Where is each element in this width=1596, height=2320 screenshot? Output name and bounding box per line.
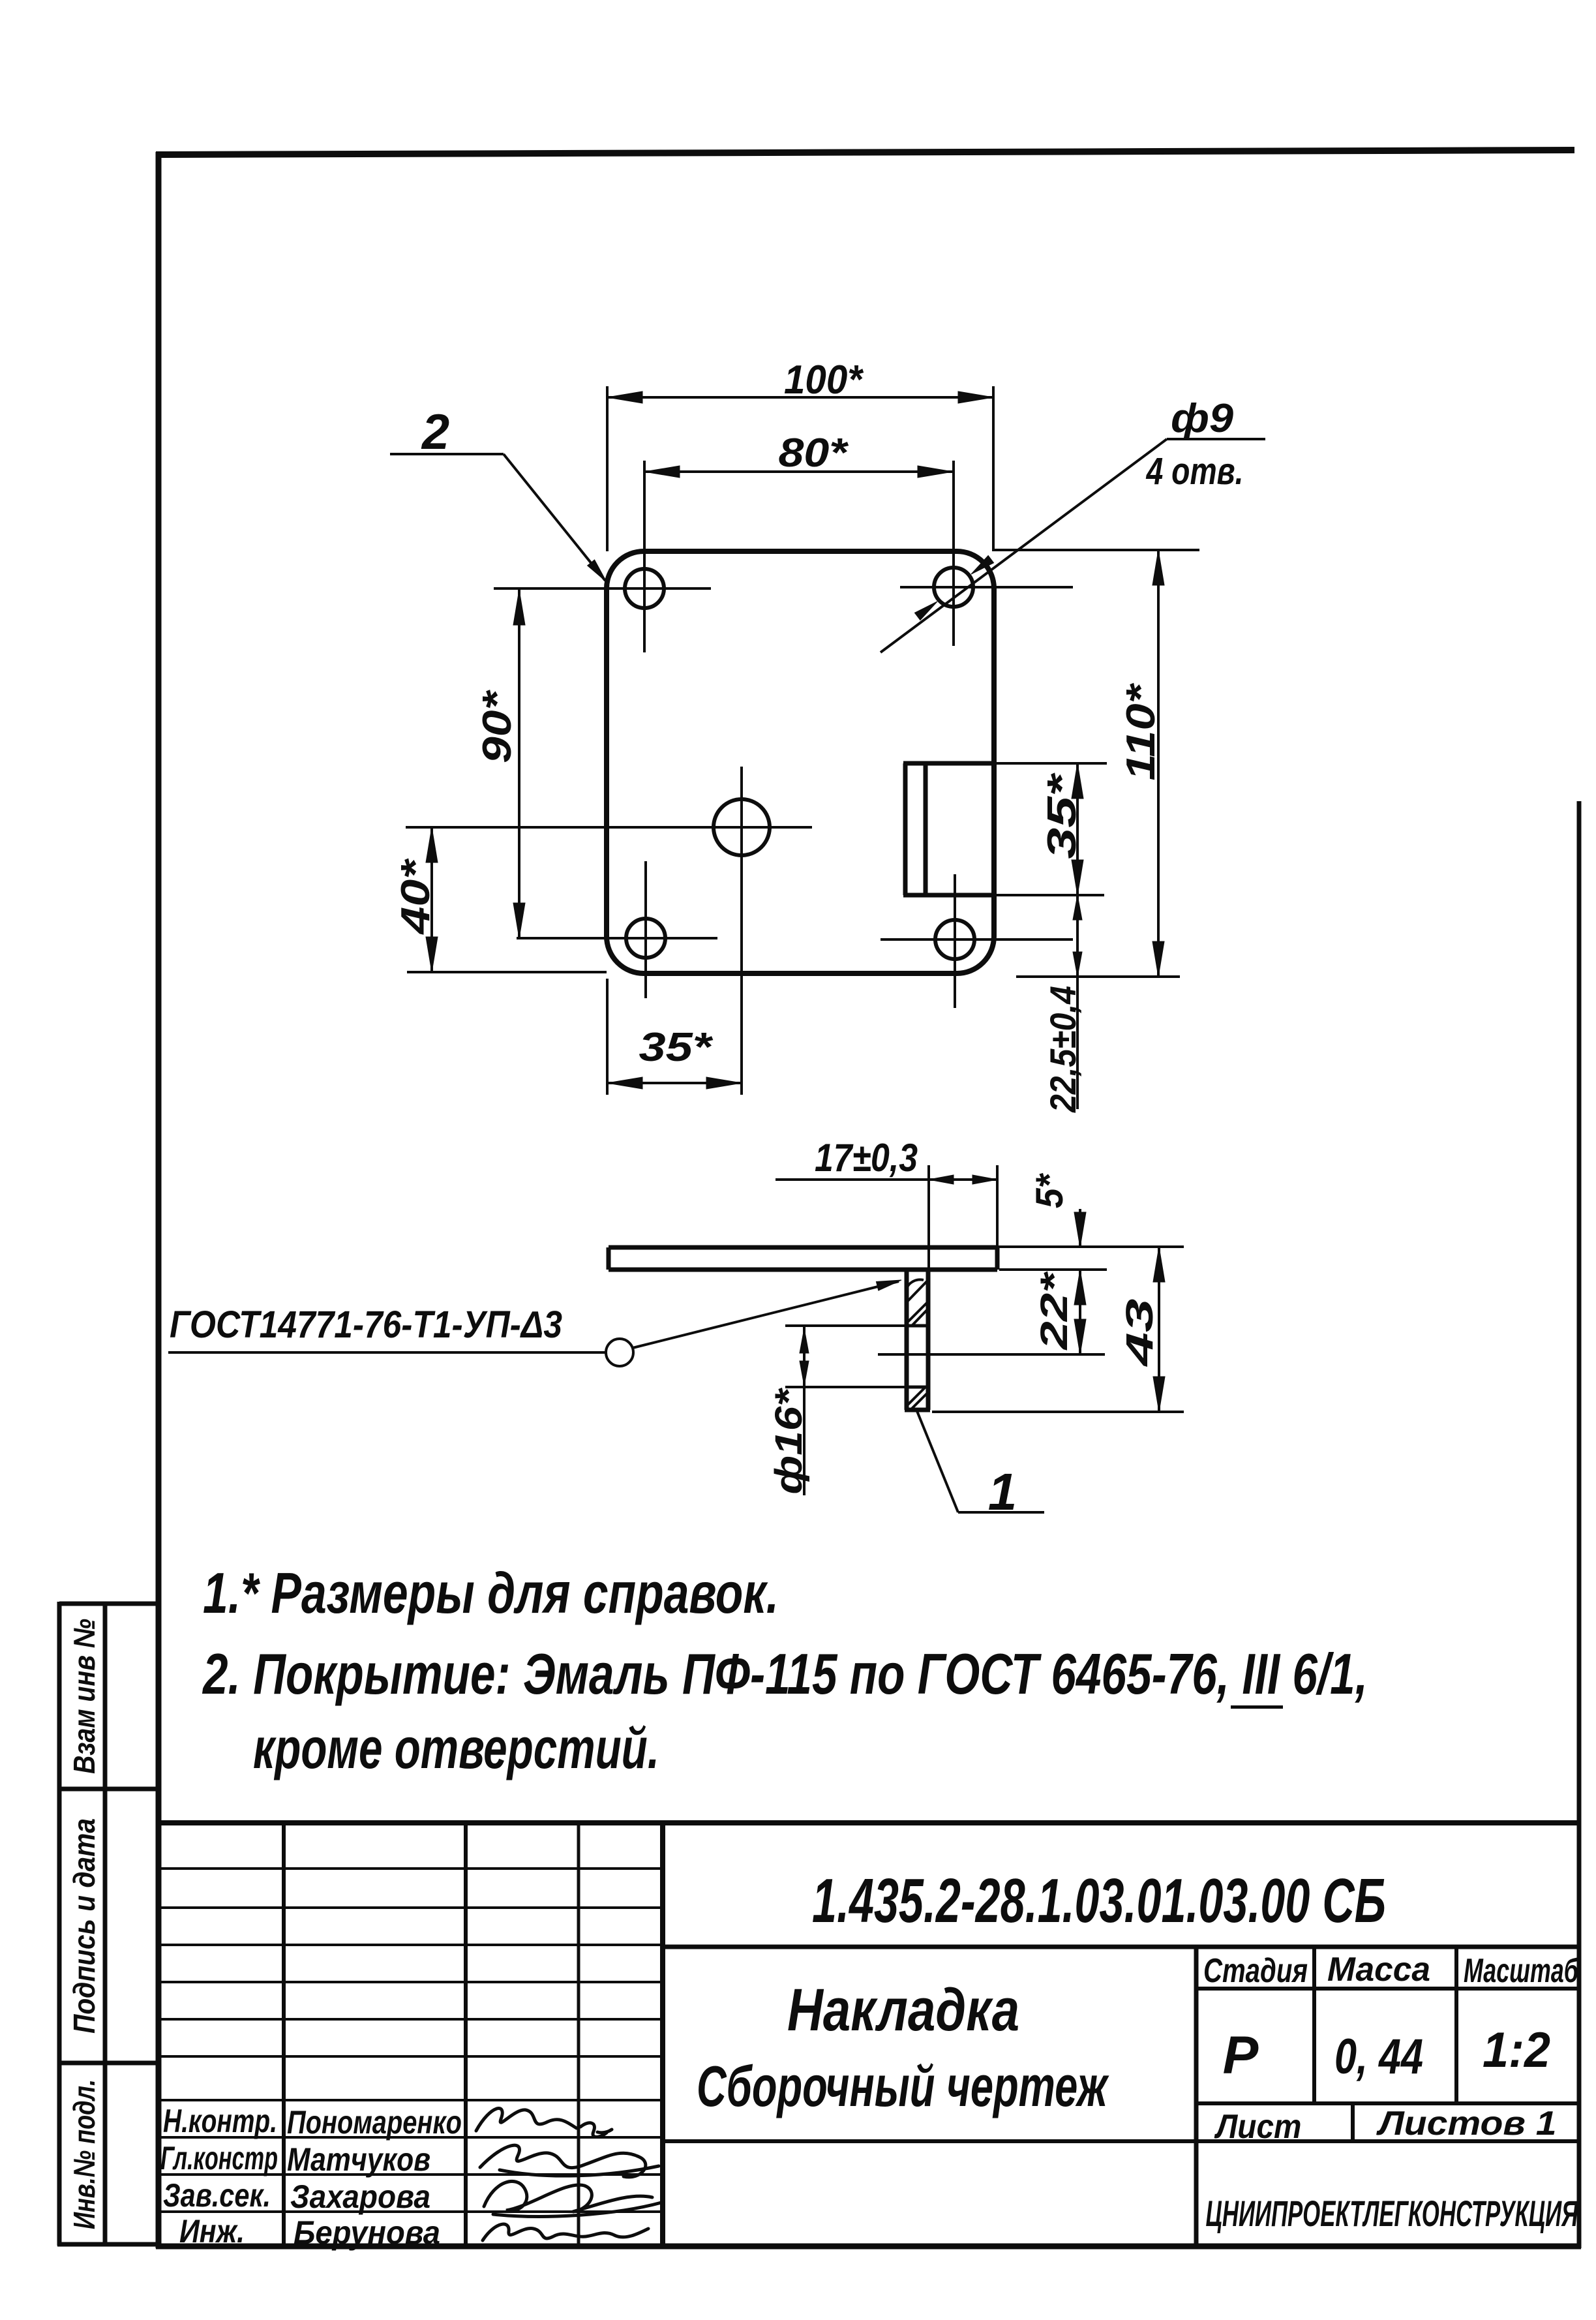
- signature glkonstr: [480, 2145, 659, 2177]
- note line 2 roman III underline: [1231, 1705, 1283, 1709]
- side view leg right edge: [926, 1270, 931, 1410]
- svg-text:0, 44: 0, 44: [1334, 2029, 1423, 2084]
- plate outline (plan view): [607, 551, 994, 973]
- sheet frame right border: [1577, 801, 1582, 2248]
- svg-text:Подпись и дата: Подпись и дата: [67, 1818, 101, 2034]
- stamp row line above list band: [1196, 2101, 1579, 2105]
- dimension 22,5 right: [1076, 895, 1079, 1109]
- stamp list divider: [1351, 2103, 1355, 2142]
- svg-text:кроме отверстий.: кроме отверстий.: [253, 1716, 659, 1780]
- svg-text:35*: 35*: [1040, 772, 1085, 859]
- title block left sub-table rows: [158, 1869, 663, 2212]
- side view leg left edge: [905, 1270, 909, 1410]
- svg-text:Сборочный чертеж: Сборочный чертеж: [697, 2054, 1109, 2118]
- hole bottom-right: [935, 920, 974, 959]
- signature inzh: [483, 2224, 648, 2240]
- title block stamp vertical: [1194, 1947, 1199, 2246]
- centerline TR hole horizontal: [900, 586, 1073, 588]
- svg-text:17±0,3: 17±0,3: [815, 1136, 918, 1180]
- bar top edge extension right: [997, 1245, 1184, 1248]
- item leader 2: [390, 453, 504, 455]
- hole top-right: [934, 568, 973, 607]
- svg-text:5*: 5*: [1029, 1173, 1071, 1208]
- hole callout leader f9: [1167, 438, 1265, 440]
- stamp column massa/masshtab: [1454, 1947, 1458, 2103]
- centerline BL hole horizontal: [517, 937, 717, 939]
- dimension 17+-0,3: [927, 1165, 930, 1303]
- svg-text:Инв.№ подл.: Инв.№ подл.: [67, 2079, 101, 2229]
- svg-text:Стадия: Стадия: [1203, 1952, 1308, 1990]
- svg-text:2: 2: [421, 404, 449, 460]
- dimension 100* top: [607, 386, 993, 551]
- hole top-left: [625, 569, 664, 608]
- svg-text:ЦНИИПРОЕКТЛЕГКОНСТРУКЦИЯ: ЦНИИПРОЕКТЛЕГКОНСТРУКЦИЯ: [1206, 2193, 1579, 2234]
- svg-text:Масса: Масса: [1327, 1951, 1430, 1989]
- centerline TR hole vertical: [952, 461, 955, 646]
- centerline BL hole vertical: [644, 861, 647, 998]
- svg-text:ГОСТ14771-76-Т1-УП-Δ3: ГОСТ14771-76-Т1-УП-Δ3: [170, 1304, 562, 1346]
- side view hole centerline: [878, 1353, 1105, 1356]
- svg-text:Пономаренко: Пономаренко: [287, 2104, 462, 2141]
- weld designation leader: [168, 1351, 605, 1354]
- svg-text:ф9: ф9: [1171, 396, 1234, 441]
- svg-text:80*: 80*: [779, 431, 849, 476]
- svg-text:Лист: Лист: [1214, 2108, 1302, 2146]
- svg-text:Р: Р: [1223, 2026, 1259, 2085]
- stamp column stadia/massa: [1312, 1947, 1316, 2103]
- bent tab edge left (plan): [903, 763, 908, 895]
- dimension 35* bottom: [606, 979, 609, 1095]
- svg-text:Инж.: Инж.: [179, 2213, 245, 2250]
- svg-text:43: 43: [1119, 1299, 1161, 1367]
- sheet frame top border: [156, 150, 1574, 155]
- dimension 80*: [644, 470, 953, 473]
- signature scribbles: [476, 2109, 661, 2240]
- svg-text:Взам инв №: Взам инв №: [67, 1619, 101, 1774]
- centerline BR hole horizontal: [881, 938, 1073, 941]
- dimension 90* left: [518, 590, 520, 938]
- signature nkontr: [476, 2109, 612, 2137]
- centerline TL hole horizontal: [494, 587, 711, 590]
- centerline center hole horizontal: [406, 826, 812, 829]
- sheet frame bottom border: [156, 2244, 1581, 2250]
- dimension 5*: [1079, 1209, 1081, 1247]
- svg-text:22,5±0,4: 22,5±0,4: [1042, 986, 1083, 1113]
- dimension 43: [932, 1411, 1184, 1413]
- svg-text:35*: 35*: [639, 1025, 714, 1070]
- title block top line: [158, 1820, 1579, 1825]
- title block left sub-table verticals: [282, 1823, 286, 2246]
- dimension 35* right: [1076, 763, 1079, 895]
- centerline TL hole vertical: [643, 461, 646, 652]
- svg-text:110*: 110*: [1119, 682, 1164, 780]
- svg-text:1:2: 1:2: [1483, 2022, 1550, 2078]
- side view leg bottom edge: [905, 1408, 930, 1412]
- stamp row line below list band: [663, 2139, 1579, 2143]
- section hatching lower: [907, 1388, 928, 1410]
- svg-text:Листов 1: Листов 1: [1376, 2105, 1556, 2143]
- side view plate bar outline: [609, 1247, 997, 1270]
- dimension 40* left: [430, 827, 433, 972]
- dimension f16*: [803, 1326, 806, 1495]
- bent tab bend line (plan): [924, 763, 928, 895]
- left margin strip outline: [57, 1602, 160, 2246]
- svg-text:40*: 40*: [393, 858, 438, 936]
- svg-text:Масштаб: Масштаб: [1464, 1952, 1579, 1990]
- svg-text:Накладка: Накладка: [787, 1977, 1019, 2043]
- svg-text:Захарова: Захарова: [290, 2178, 430, 2215]
- signature zavsek: [484, 2181, 661, 2216]
- title block doc number band bottom: [663, 1945, 1579, 1949]
- svg-text:1.435.2-28.1.03.01.03.00 СБ: 1.435.2-28.1.03.01.03.00 СБ: [812, 1866, 1386, 1936]
- center hole: [714, 799, 770, 855]
- stamp header row line: [1196, 1987, 1579, 1991]
- svg-text:Гл.констр: Гл.констр: [160, 2140, 278, 2176]
- side view leg hole bottom edge: [785, 1386, 907, 1388]
- centerline center hole vertical: [740, 767, 743, 1095]
- svg-text:Н.контр.: Н.контр.: [163, 2103, 277, 2139]
- dimension 22*: [1079, 1270, 1081, 1354]
- svg-text:1.* Размеры для справок.: 1.* Размеры для справок.: [203, 1561, 779, 1625]
- svg-text:Матчуков: Матчуков: [287, 2141, 430, 2178]
- item leader 1: [917, 1411, 958, 1512]
- dimension 110* right: [994, 549, 1199, 551]
- sheet frame left border: [156, 152, 162, 2248]
- svg-text:Берунова: Берунова: [294, 2214, 440, 2251]
- svg-text:1: 1: [988, 1463, 1017, 1521]
- svg-text:4 отв.: 4 отв.: [1146, 450, 1244, 493]
- bar bottom edge extension right: [999, 1268, 1107, 1271]
- svg-text:ф16*: ф16*: [768, 1388, 810, 1495]
- svg-text:Зав.сек.: Зав.сек.: [163, 2177, 271, 2214]
- side view leg hole top edge: [785, 1324, 928, 1327]
- bent tab top edge (plan): [903, 761, 994, 766]
- bent tab bottom edge (plan): [903, 893, 994, 898]
- svg-text:90*: 90*: [475, 690, 520, 763]
- svg-text:22*: 22*: [1033, 1271, 1076, 1351]
- section hatching upper: [907, 1279, 928, 1326]
- hole bottom-left: [626, 919, 665, 958]
- svg-text:2. Покрытие: Эмаль ПФ-115 п: 2. Покрытие: Эмаль ПФ-115 по ГОСТ 6465-7…: [202, 1641, 1368, 1706]
- centerline BR hole vertical: [954, 874, 956, 1008]
- svg-text:100*: 100*: [784, 358, 864, 403]
